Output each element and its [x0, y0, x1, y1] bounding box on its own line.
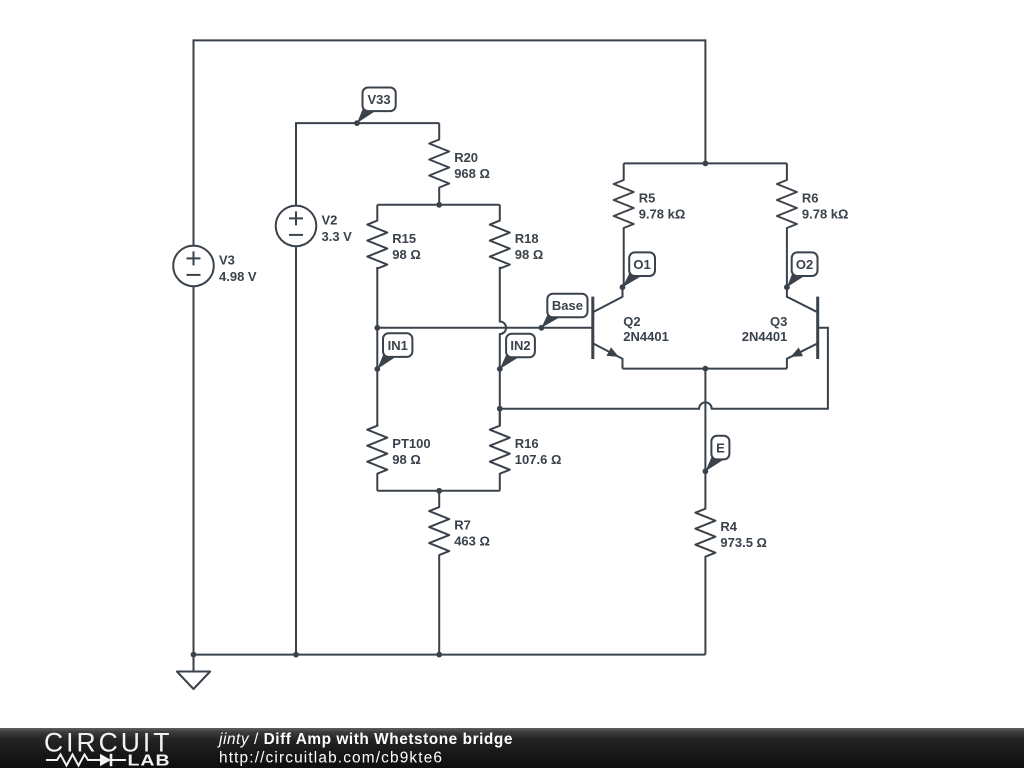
svg-text:IN2: IN2: [510, 338, 530, 353]
svg-text:V33: V33: [368, 92, 391, 107]
svg-text:R18: R18: [515, 231, 539, 246]
junction node R5 R6 top: [703, 161, 709, 167]
resistor R5 9.78 k&#937;: [614, 163, 686, 287]
wire left vertical upper: [193, 39, 195, 246]
net flag V33: [354, 88, 396, 127]
svg-text:98 Ω: 98 Ω: [392, 452, 421, 467]
resistor R6 9.78 k&#937;: [777, 163, 849, 287]
svg-text:98 Ω: 98 Ω: [515, 247, 544, 262]
voltage source V3 4.98 V: [173, 246, 257, 287]
wire emitter rail: [623, 368, 787, 370]
junction node R15 base wire: [374, 325, 380, 331]
svg-text:http://circuitlab.com/cb9kte6: http://circuitlab.com/cb9kte6: [219, 750, 443, 767]
wire base row: [377, 327, 593, 329]
CircuitLab logo word LAB: [128, 751, 171, 768]
resistor R15 98 &#937;: [367, 205, 421, 269]
svg-text:O1: O1: [633, 257, 650, 272]
CircuitLab logo resistor-diode glyph: [46, 754, 126, 766]
svg-text:LAB: LAB: [128, 751, 171, 768]
resistor R18 98 &#937;: [490, 205, 544, 269]
wire V2 top lead: [295, 123, 297, 205]
net flag IN1: [374, 333, 412, 372]
voltage source V2 3.3 V: [276, 206, 352, 247]
wire mid vertical emitter to R4: [704, 369, 706, 472]
footer bar: [0, 728, 1024, 768]
svg-text:2N4401: 2N4401: [742, 329, 788, 344]
svg-text:V2: V2: [322, 213, 338, 228]
resistor R7 463 &#937;: [429, 491, 490, 655]
junction node R7 top: [436, 488, 442, 494]
net flag IN2: [497, 334, 535, 372]
wire left vertical lower: [193, 286, 195, 655]
junction node ground left: [191, 652, 197, 658]
svg-text:V3: V3: [219, 253, 235, 268]
svg-text:463 Ω: 463 Ω: [454, 534, 490, 549]
transistor Q3 2N4401: [742, 287, 818, 368]
svg-text:Q3: Q3: [770, 314, 787, 329]
svg-text:R20: R20: [454, 150, 478, 165]
junction node R7 bottom: [436, 652, 442, 658]
resistor PT100 98 &#937;: [367, 424, 430, 491]
junction node IN2 wire: [497, 406, 503, 412]
wire ground rail: [194, 654, 706, 656]
wire R20 bottom node horizontal: [377, 204, 500, 206]
svg-text:R7: R7: [454, 518, 471, 533]
svg-text:Base: Base: [552, 298, 583, 313]
net flag O2: [784, 252, 818, 290]
svg-text:973.5 Ω: 973.5 Ω: [720, 535, 767, 550]
svg-text:PT100: PT100: [392, 436, 430, 451]
svg-text:107.6 Ω: 107.6 Ω: [515, 452, 562, 467]
resistor R16 107.6 &#937;: [490, 409, 562, 491]
wire IN2 to Q3 base with hop: [500, 328, 828, 409]
net flag O1: [620, 252, 655, 290]
net flag E: [703, 436, 730, 474]
wire bridge bottom: [377, 490, 500, 492]
svg-text:O2: O2: [796, 257, 813, 272]
svg-text:9.78 kΩ: 9.78 kΩ: [639, 207, 686, 222]
junction node R20 bottom: [436, 202, 442, 208]
svg-text:E: E: [716, 440, 725, 455]
wire V33 horizontal: [295, 122, 439, 124]
svg-text:jinty / Diff Amp with Whetston: jinty / Diff Amp with Whetstone bridge: [217, 731, 513, 748]
wire top rail: [194, 39, 706, 41]
svg-text:98 Ω: 98 Ω: [392, 247, 421, 262]
svg-text:3.3 V: 3.3 V: [322, 229, 353, 244]
ground symbol: [177, 655, 210, 689]
svg-text:4.98 V: 4.98 V: [219, 269, 257, 284]
junction node V2 bottom: [293, 652, 299, 658]
svg-text:9.78 kΩ: 9.78 kΩ: [802, 207, 849, 222]
svg-text:Q2: Q2: [623, 314, 640, 329]
svg-text:R16: R16: [515, 436, 539, 451]
svg-text:968 Ω: 968 Ω: [454, 166, 490, 181]
wire right vertical from top rail: [704, 39, 706, 163]
net flag Base: [539, 294, 588, 331]
svg-text:R4: R4: [720, 519, 737, 534]
junction node emitter rail: [703, 366, 709, 372]
transistor Q2 2N4401: [593, 287, 669, 368]
wire R5 R6 top rail: [624, 162, 787, 164]
svg-text:R5: R5: [639, 191, 656, 206]
wire IN2 vertical with hop: [500, 267, 506, 426]
CircuitLab logo word CIRCUIT: [44, 728, 172, 758]
resistor R4 973.5 &#937;: [695, 471, 767, 654]
svg-text:IN1: IN1: [388, 338, 408, 353]
resistor R20 968 &#937;: [429, 123, 490, 205]
footer url line: [219, 750, 443, 767]
footer title line: [217, 731, 513, 748]
svg-text:2N4401: 2N4401: [623, 329, 669, 344]
svg-text:R6: R6: [802, 191, 819, 206]
wire V2 bottom lead: [295, 246, 297, 654]
wire IN1 vertical: [376, 267, 378, 426]
svg-text:R15: R15: [392, 231, 416, 246]
